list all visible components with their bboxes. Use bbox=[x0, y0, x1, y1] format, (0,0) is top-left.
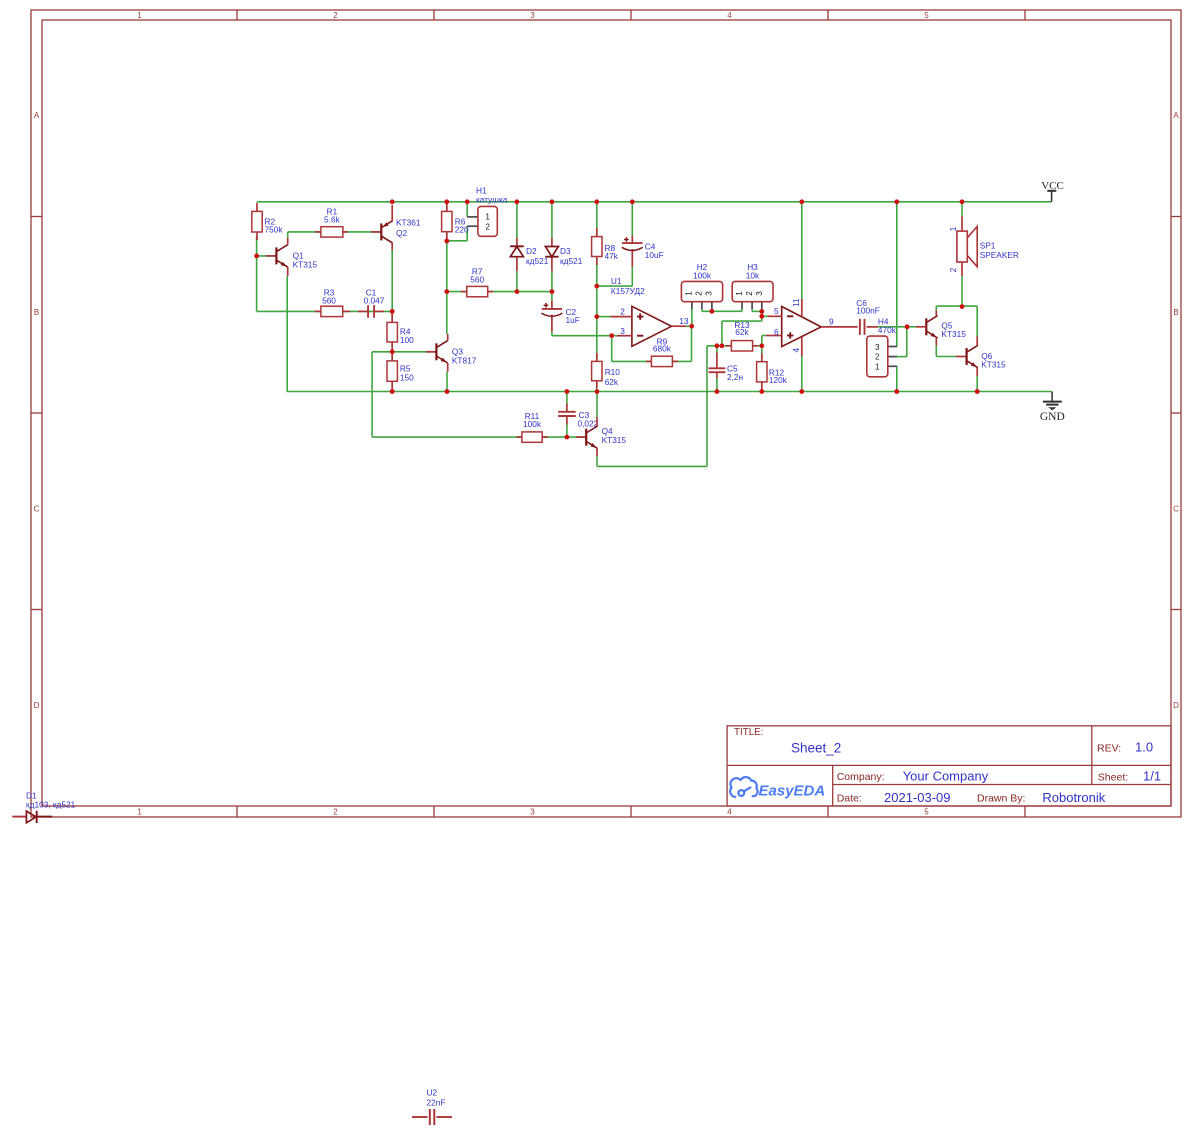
svg-text:D2: D2 bbox=[526, 246, 537, 256]
capacitor C4 bbox=[622, 236, 664, 267]
svg-text:1: 1 bbox=[684, 291, 693, 296]
svg-text:3: 3 bbox=[530, 808, 535, 817]
resistor R5 bbox=[387, 354, 414, 390]
transistor Q2 KT361 bbox=[381, 205, 421, 250]
wire R11 to Q4 base bbox=[542, 436, 586, 438]
op-amp U1.2 bbox=[766, 298, 858, 356]
svg-text:2: 2 bbox=[948, 267, 958, 272]
svg-text:REV:: REV: bbox=[1097, 743, 1121, 755]
svg-text:560: 560 bbox=[470, 274, 484, 284]
node D3/C2 bbox=[550, 289, 555, 294]
wire H4 pin3 to VCC bbox=[896, 202, 898, 347]
node speaker/collectors bbox=[960, 304, 965, 309]
pin 4 stub bbox=[801, 337, 803, 357]
wire Q6 emitter to GND bbox=[976, 376, 978, 391]
svg-text:2: 2 bbox=[745, 291, 754, 296]
svg-text:SP1: SP1 bbox=[980, 241, 996, 251]
svg-text:10k: 10k bbox=[746, 270, 760, 280]
wire R9 left bbox=[612, 360, 652, 362]
svg-text:2: 2 bbox=[333, 808, 338, 817]
svg-text:62k: 62k bbox=[605, 377, 619, 387]
node Q1 base bbox=[254, 254, 259, 259]
svg-text:100k: 100k bbox=[693, 270, 712, 280]
svg-text:катушка: катушка bbox=[476, 195, 508, 205]
wire C5 column bbox=[716, 346, 718, 353]
wire Q4 collector up bbox=[596, 392, 598, 418]
wire R13 row bbox=[707, 345, 731, 347]
svg-text:4: 4 bbox=[791, 348, 801, 353]
resistor R4 bbox=[387, 313, 414, 350]
node C1/Q2/R4 bbox=[390, 309, 395, 314]
transistor Q3 KT817 bbox=[436, 334, 476, 372]
wire C3 column bbox=[566, 392, 568, 404]
svg-text:1uF: 1uF bbox=[566, 315, 580, 325]
svg-text:22nF: 22nF bbox=[427, 1098, 446, 1108]
wire R7/D2/D3 row bbox=[447, 291, 467, 293]
node R13 right bbox=[759, 343, 764, 348]
svg-text:KT315: KT315 bbox=[602, 435, 627, 445]
svg-text:VCC: VCC bbox=[1041, 180, 1064, 192]
svg-text:4: 4 bbox=[727, 11, 732, 20]
svg-text:Q2: Q2 bbox=[396, 228, 407, 238]
resistor R9 bbox=[646, 337, 678, 367]
capacitor C3 bbox=[558, 404, 599, 429]
pin 9 wire bbox=[821, 326, 858, 328]
svg-text:D: D bbox=[1173, 701, 1179, 710]
wire pin3 node down to R9 bbox=[611, 336, 613, 362]
svg-text:150: 150 bbox=[400, 373, 414, 383]
node pin5 bbox=[759, 314, 764, 319]
resistor R8 bbox=[592, 228, 619, 265]
svg-text:100nF: 100nF bbox=[856, 306, 880, 316]
svg-text:3: 3 bbox=[755, 291, 764, 296]
wire Q1 emitter down bbox=[286, 276, 288, 391]
wire Q3 base row bbox=[392, 351, 436, 353]
op-amp U1.1 bbox=[611, 306, 689, 346]
svg-text:SPEAKER: SPEAKER bbox=[980, 250, 1019, 260]
wire D2 column bbox=[516, 202, 518, 238]
svg-text:EasyEDA: EasyEDA bbox=[759, 783, 826, 800]
wire R8 column bbox=[596, 202, 598, 362]
svg-text:3: 3 bbox=[620, 326, 625, 336]
capacitor C1 bbox=[358, 288, 385, 318]
svg-text:62k: 62k bbox=[735, 327, 749, 337]
junction dots GND rail bbox=[390, 389, 980, 394]
wire H1 pin1 up bbox=[466, 202, 468, 217]
svg-text:KT315: KT315 bbox=[981, 359, 1006, 369]
speaker SP1 bbox=[948, 216, 1019, 276]
svg-text:13: 13 bbox=[679, 316, 689, 326]
wire R9 right riser to pin13 bbox=[672, 360, 691, 362]
wire node to op-amp pin2 bbox=[597, 316, 611, 318]
connector H2 bbox=[681, 262, 722, 309]
svg-text:2: 2 bbox=[695, 291, 704, 296]
svg-text:кд103, кд521: кд103, кд521 bbox=[26, 800, 76, 810]
svg-text:1: 1 bbox=[948, 226, 958, 231]
svg-text:100: 100 bbox=[400, 335, 414, 345]
svg-text:680k: 680k bbox=[653, 344, 672, 354]
svg-text:2: 2 bbox=[333, 11, 338, 20]
node pin2 bbox=[594, 314, 599, 319]
svg-text:Company:: Company: bbox=[837, 771, 885, 783]
node R8/C4 bbox=[594, 284, 599, 289]
wire C4 column bbox=[631, 202, 633, 236]
svg-text:1: 1 bbox=[137, 11, 142, 20]
node D2 bottom bbox=[515, 289, 520, 294]
wire speaker top bbox=[961, 202, 963, 217]
ground GND bbox=[1040, 392, 1065, 424]
svg-text:3: 3 bbox=[704, 291, 713, 296]
resistor R10 bbox=[592, 353, 621, 388]
resistor R1 bbox=[315, 207, 348, 237]
wire Q1 collector to R1 bbox=[288, 231, 321, 233]
diode D1 bbox=[12, 791, 75, 824]
resistor R6 bbox=[442, 203, 469, 240]
wire H4 pin2 riser bbox=[897, 356, 907, 358]
wire Q3 emitter down bbox=[446, 372, 448, 392]
svg-text:47k: 47k bbox=[605, 251, 619, 261]
wire GND rail bbox=[287, 391, 1052, 393]
svg-text:120k: 120k bbox=[769, 375, 788, 385]
resistor R12 bbox=[757, 354, 788, 390]
svg-text:U1: U1 bbox=[611, 276, 622, 286]
node C3/R11/Q4 bbox=[565, 435, 570, 440]
svg-text:2: 2 bbox=[485, 223, 490, 232]
wire R2 bottom to node bbox=[256, 236, 258, 311]
resistor R3 bbox=[315, 288, 350, 317]
svg-text:KT361: KT361 bbox=[396, 218, 421, 228]
wire C2 to op-amp pin3 bbox=[551, 332, 553, 336]
node R4/R5/Q3 bbox=[390, 349, 395, 354]
node R7 left bbox=[444, 289, 449, 294]
svg-text:1/1: 1/1 bbox=[1143, 769, 1161, 784]
resistor R13 bbox=[726, 320, 758, 351]
wire R1 to Q2 base bbox=[343, 231, 381, 233]
svg-text:GND: GND bbox=[1040, 411, 1065, 423]
wire pin5 link to R13 left bbox=[761, 316, 763, 321]
wire R3/C1 row bbox=[257, 310, 392, 312]
wire pin6 link bbox=[762, 335, 766, 337]
wire H2 pins 2-3 to H3 pin1 bbox=[701, 309, 703, 311]
svg-text:0.047: 0.047 bbox=[364, 296, 385, 306]
transistor Q4 KT315 bbox=[586, 417, 626, 456]
wire node R4R5 to R11 riser bbox=[372, 351, 392, 353]
svg-text:TITLE:: TITLE: bbox=[734, 727, 763, 738]
pin 11 stub bbox=[801, 299, 803, 317]
wire R6 column bbox=[446, 202, 448, 334]
connector H1 bbox=[467, 186, 508, 237]
svg-text:220: 220 bbox=[455, 225, 469, 235]
wire Q5/Q6 collector tie bbox=[936, 305, 977, 307]
node C6/H4/Q5 bbox=[905, 324, 910, 329]
capacitor U2 bbox=[412, 1088, 452, 1126]
trimmer H4 bbox=[867, 317, 897, 377]
svg-text:3: 3 bbox=[875, 343, 880, 352]
svg-text:9: 9 bbox=[829, 317, 834, 327]
diode D2 bbox=[510, 238, 549, 271]
wire VCC rail bbox=[257, 201, 1052, 203]
svg-text:KT817: KT817 bbox=[452, 355, 477, 365]
transistor Q1 KT315 bbox=[276, 238, 317, 276]
pin 13 wire bbox=[672, 325, 687, 327]
svg-text:U2: U2 bbox=[427, 1088, 438, 1098]
svg-text:6: 6 bbox=[774, 327, 779, 337]
svg-text:470k: 470k bbox=[878, 325, 897, 335]
resistor R7 bbox=[461, 267, 493, 297]
svg-text:750k: 750k bbox=[265, 225, 284, 235]
svg-text:2021-03-09: 2021-03-09 bbox=[884, 790, 951, 805]
svg-text:Your Company: Your Company bbox=[903, 769, 989, 784]
wire R12 column / pin6 riser bbox=[761, 336, 763, 362]
wire speaker bottom bbox=[961, 276, 963, 307]
node pin3 bbox=[609, 333, 614, 338]
node C5 top bbox=[715, 343, 720, 348]
wire pin13 node bbox=[686, 325, 692, 327]
node H3 pins bbox=[759, 309, 764, 314]
wire C6 out to Q5 base node bbox=[878, 326, 916, 328]
wire H3 node to pin5 bbox=[761, 311, 763, 316]
wire H1 pin2 down to R6 bbox=[466, 226, 468, 241]
svg-text:D3: D3 bbox=[560, 246, 571, 256]
wire op-amp2 pin11 to VCC bbox=[801, 202, 803, 299]
svg-text:4: 4 bbox=[727, 808, 732, 817]
transistor Q6 KT315 bbox=[967, 337, 1006, 377]
svg-text:C: C bbox=[34, 505, 40, 514]
svg-text:C: C bbox=[1173, 505, 1179, 514]
svg-text:R10: R10 bbox=[605, 367, 621, 377]
svg-text:A: A bbox=[1173, 111, 1179, 120]
wire op-amp2 pin4 to GND bbox=[801, 357, 803, 392]
svg-text:5.6k: 5.6k bbox=[324, 215, 341, 225]
svg-text:2: 2 bbox=[875, 353, 880, 362]
svg-text:Drawn By:: Drawn By: bbox=[977, 793, 1025, 805]
svg-text:Robotronik: Robotronik bbox=[1042, 790, 1105, 805]
svg-text:Date:: Date: bbox=[837, 793, 862, 805]
wire Q1 base bbox=[257, 255, 277, 257]
wire R4-R5 chain bbox=[391, 311, 393, 391]
svg-text:1: 1 bbox=[735, 291, 744, 296]
svg-text:5: 5 bbox=[924, 808, 929, 817]
svg-text:1: 1 bbox=[875, 363, 880, 372]
diode D3 bbox=[545, 238, 582, 271]
resistor R2 bbox=[252, 203, 284, 240]
svg-text:1: 1 bbox=[485, 213, 490, 222]
wire R10 to GND row bbox=[596, 381, 598, 392]
svg-text:2: 2 bbox=[620, 306, 625, 316]
svg-text:1: 1 bbox=[137, 808, 142, 817]
svg-text:Sheet:: Sheet: bbox=[1098, 772, 1128, 784]
svg-text:KT315: KT315 bbox=[941, 329, 966, 339]
wire C4 to R8 node bbox=[597, 285, 633, 287]
svg-text:D: D bbox=[34, 701, 40, 710]
junction dots VCC rail bbox=[390, 199, 965, 204]
transistor Q5 KT315 bbox=[916, 311, 966, 346]
capacitor C5 bbox=[709, 353, 744, 383]
svg-text:A: A bbox=[34, 111, 40, 120]
resistor R11 bbox=[517, 411, 549, 442]
node R13 left bbox=[720, 343, 725, 348]
connector H3 bbox=[732, 262, 773, 309]
svg-text:560: 560 bbox=[322, 296, 336, 306]
svg-text:B: B bbox=[34, 308, 39, 317]
svg-text:Sheet_2: Sheet_2 bbox=[791, 741, 841, 756]
svg-text:К157УД2: К157УД2 bbox=[611, 286, 645, 296]
svg-text:KT315: KT315 bbox=[293, 260, 318, 270]
wire H4 pin1 to GND bbox=[896, 366, 898, 391]
wire D3 column bbox=[551, 202, 553, 238]
capacitor C6 bbox=[856, 298, 880, 335]
svg-text:B: B bbox=[1173, 308, 1178, 317]
svg-text:кд521: кд521 bbox=[560, 256, 583, 266]
wire H3 pins 2-3 node bbox=[751, 309, 753, 311]
svg-text:5: 5 bbox=[774, 306, 779, 316]
wire C2 column bbox=[551, 292, 553, 301]
capacitor C2 bbox=[541, 301, 579, 332]
svg-text:10uF: 10uF bbox=[645, 250, 664, 260]
wire Q2 collector down bbox=[391, 249, 393, 311]
svg-text:5: 5 bbox=[924, 11, 929, 20]
wire H2 pin1 to pin13 node bbox=[691, 309, 693, 326]
power flag VCC bbox=[1041, 180, 1064, 202]
wire Q4 emitter loop bbox=[706, 346, 708, 467]
node H2 pins bbox=[710, 309, 715, 314]
wire Q5 emitter to Q6 base bbox=[935, 345, 937, 356]
svg-text:1.0: 1.0 bbox=[1135, 740, 1153, 755]
node pin13 bbox=[689, 324, 694, 329]
wire R11 row bbox=[372, 436, 522, 438]
svg-text:2,2н: 2,2н bbox=[727, 372, 743, 382]
svg-text:3: 3 bbox=[530, 11, 535, 20]
node R6/H1 bbox=[444, 239, 449, 244]
svg-text:100k: 100k bbox=[523, 419, 542, 429]
svg-text:11: 11 bbox=[791, 298, 801, 307]
